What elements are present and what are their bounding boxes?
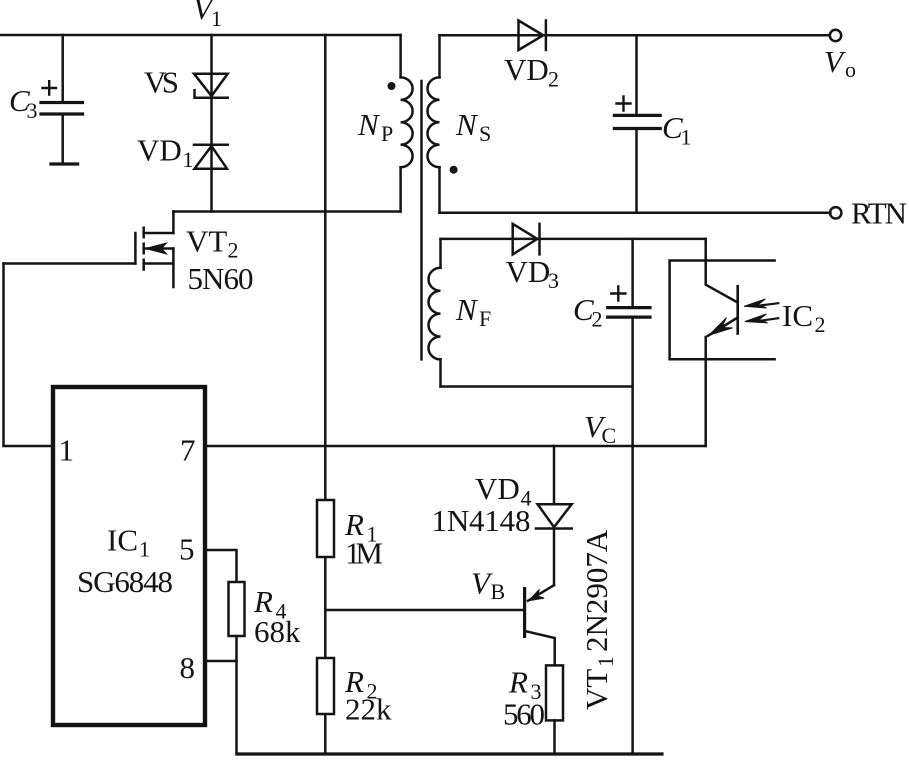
optocoupler IC2 box	[670, 261, 775, 360]
diode VD1 label	[137, 133, 194, 173]
transformer winding NS lead top	[438, 35, 441, 77]
transistor VT2 arrow	[146, 243, 167, 254]
zener diode VS label	[144, 65, 179, 100]
transistor VT2 label	[186, 224, 254, 297]
optocoupler IC2 emitter arrow	[709, 318, 733, 336]
optocoupler IC2 label	[782, 298, 826, 337]
svg-text:560: 560	[503, 697, 545, 732]
svg-text:1: 1	[681, 125, 692, 150]
resistor R2 label	[344, 664, 392, 727]
svg-text:2N2907A: 2N2907A	[579, 529, 614, 652]
capacitor C1	[614, 35, 660, 213]
svg-text:5N60: 5N60	[188, 261, 254, 296]
wire NF top rail	[441, 238, 706, 241]
chip IC1 pin7 label	[180, 433, 196, 468]
svg-text:2: 2	[228, 238, 239, 263]
capacitor C1 label	[662, 110, 692, 150]
svg-text:68k: 68k	[254, 614, 301, 649]
svg-text:1M: 1M	[345, 536, 383, 571]
svg-text:VD: VD	[475, 471, 520, 506]
resistor R4	[229, 582, 245, 636]
wire top rail V1	[0, 34, 401, 37]
wire NS top to Vo	[440, 34, 830, 37]
svg-text:N: N	[455, 292, 479, 327]
terminal RTN	[830, 207, 841, 218]
zener diode VS	[194, 74, 228, 98]
optocoupler IC2 emitter	[706, 318, 738, 447]
svg-text:R: R	[508, 665, 528, 700]
svg-text:S: S	[479, 121, 491, 146]
resistor R1 label	[344, 507, 383, 571]
transformer winding NS	[427, 77, 439, 167]
svg-text:o: o	[845, 57, 856, 82]
svg-text:VD: VD	[137, 133, 182, 168]
optocoupler IC2 light arrow 2	[759, 318, 778, 321]
svg-text:V: V	[824, 44, 846, 79]
transformer core	[420, 81, 423, 359]
resistor R1	[317, 500, 334, 557]
wire pin8 to R4 line	[207, 660, 237, 663]
svg-text:VD: VD	[504, 52, 549, 87]
svg-text:IC: IC	[107, 523, 138, 558]
svg-text:1N4148: 1N4148	[432, 503, 531, 538]
capacitor C3	[41, 35, 83, 164]
transformer winding NP	[401, 77, 413, 167]
diode VD2 label	[504, 52, 559, 92]
diode VD1	[194, 145, 228, 169]
svg-text:1: 1	[59, 433, 75, 468]
node VC label	[584, 409, 616, 448]
svg-text:7: 7	[180, 433, 196, 468]
svg-text:2: 2	[592, 307, 603, 332]
svg-text:5: 5	[179, 532, 195, 567]
svg-text:1: 1	[211, 6, 222, 31]
chip IC1 name label	[77, 523, 173, 600]
resistor R2	[317, 658, 334, 714]
svg-text:RTN: RTN	[851, 196, 907, 231]
diode VD4 label	[432, 471, 532, 538]
transformer winding NF bottom lead	[439, 359, 442, 386]
transistor VT2 MOSFET	[4, 212, 174, 288]
svg-text:P: P	[381, 121, 393, 146]
transformer NF label	[455, 292, 491, 331]
svg-text:VT: VT	[579, 669, 614, 710]
wire VS/VD1 string vertical	[210, 35, 213, 212]
node VB label	[471, 566, 505, 605]
svg-text:1: 1	[183, 147, 194, 172]
transistor VT1 emitter arrow	[529, 589, 545, 601]
svg-text:SG6848: SG6848	[77, 564, 173, 599]
resistor R3	[546, 665, 563, 720]
wire drain rail	[173, 210, 400, 213]
diode VD4	[536, 504, 572, 528]
transformer winding NF lead top	[439, 239, 442, 268]
terminal Vo label	[824, 44, 856, 82]
svg-text:VT: VT	[186, 224, 227, 259]
wire NF bottom rail	[441, 385, 633, 388]
wire RTN rail	[440, 212, 831, 215]
wire pin5 to R4	[207, 550, 237, 582]
capacitor C3 label	[9, 83, 38, 123]
node V1 label	[193, 0, 222, 31]
chip IC1 pin1 label	[59, 433, 75, 468]
optocoupler IC2 light arrow 1	[758, 303, 778, 306]
transformer primary NP lead	[399, 35, 402, 77]
svg-text:2: 2	[815, 312, 826, 337]
optocoupler IC2 collector lead	[706, 239, 738, 303]
transistor VT1	[525, 585, 555, 665]
svg-text:2: 2	[548, 67, 559, 92]
transformer NS dot	[450, 166, 458, 174]
transistor VT1 label rotated	[579, 529, 618, 710]
wire pin7 to VC rail	[207, 445, 706, 448]
capacitor C2	[608, 239, 650, 754]
chip IC1 pin5 label	[179, 532, 195, 567]
wire R3 to bottom rail	[553, 720, 556, 754]
resistor R3 label	[503, 665, 545, 732]
svg-text:22k: 22k	[345, 692, 392, 727]
svg-text:N: N	[357, 107, 381, 142]
chip IC1 box	[53, 387, 205, 725]
transformer winding NF	[429, 268, 441, 360]
wire bottom rail	[237, 752, 662, 755]
resistor R4 label	[253, 584, 301, 649]
wire long vertical V1 to bottom	[324, 35, 327, 754]
svg-text:8: 8	[180, 650, 196, 685]
diode VD3 label	[506, 254, 560, 293]
transformer NS label	[455, 107, 491, 146]
svg-text:1: 1	[593, 656, 618, 667]
svg-text:VD: VD	[506, 254, 551, 289]
svg-text:1: 1	[139, 537, 150, 562]
svg-text:VS: VS	[144, 65, 179, 100]
terminal RTN label	[851, 196, 907, 231]
svg-text:IC: IC	[782, 298, 813, 333]
wire VC to VD4	[553, 446, 556, 504]
svg-text:3: 3	[548, 268, 559, 293]
chip IC1 pin8 label	[180, 650, 196, 685]
svg-text:F: F	[479, 306, 491, 331]
optocoupler IC2 base bar	[736, 286, 739, 333]
svg-text:C: C	[602, 423, 617, 448]
svg-text:3: 3	[27, 98, 38, 123]
diode VD3	[513, 224, 540, 255]
svg-text:N: N	[455, 107, 479, 142]
transformer NP label	[357, 107, 393, 146]
svg-text:B: B	[491, 579, 506, 604]
transformer NP dot	[388, 82, 396, 90]
wire gate to pin1	[4, 264, 52, 447]
wire VD4 to VT1 emitter	[553, 529, 556, 586]
transformer winding NS bottom lead	[438, 167, 441, 213]
terminal Vo	[830, 30, 841, 41]
wire VB rail	[325, 609, 524, 612]
wire R4 to bottom rail	[235, 636, 238, 754]
diode VD2	[519, 21, 546, 51]
transformer primary NP bottom lead	[399, 167, 402, 211]
capacitor C2 label	[573, 292, 603, 332]
